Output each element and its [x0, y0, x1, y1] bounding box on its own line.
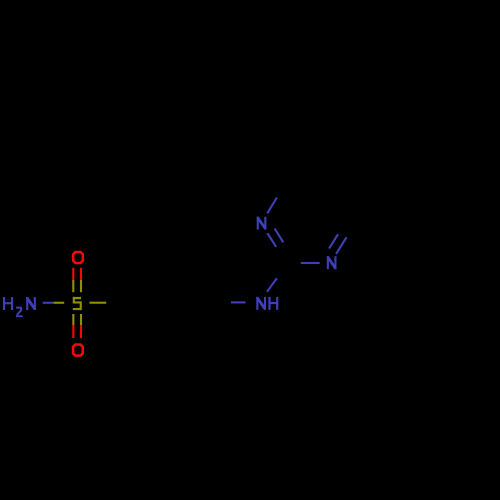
bond C2-N3 blue half [301, 262, 320, 264]
bond S=O bottom, line 2 [80, 314, 82, 338]
bond S=O top, line 2 [80, 268, 82, 292]
atom label N3 (pyrimidine) [327, 256, 337, 269]
bond S=O top, line 1 [72, 268, 74, 292]
atom label S (sulfonyl sulfur) [73, 297, 82, 310]
bond N-S (amine half, blue) [43, 302, 54, 304]
bond C(para)-NH blue half (carbon half invisible) [231, 301, 246, 303]
atom label N (of H2N) [26, 297, 36, 310]
bond N1-C6 blue half [267, 198, 277, 214]
bond NH-C2 blue half [267, 278, 277, 292]
atom label N (anilino NH nitrogen) [256, 297, 266, 310]
bond N3=C4 inner line blue half [329, 234, 338, 248]
bond N-S (sulfur half, olive) [54, 302, 65, 304]
atom label O (top oxygen) [72, 251, 84, 265]
bond S=O bottom, line 1 [72, 314, 74, 338]
atom label O (bottom oxygen) [72, 343, 84, 357]
atom label H (anilino NH hydrogen) [268, 297, 278, 310]
bond S-C(ipso) olive half (carbon half invisible) [90, 302, 107, 304]
bond N1=C2 inner line blue half [275, 229, 284, 243]
atom label N1 (pyrimidine) [257, 217, 267, 230]
atom label H (of H2N) [3, 297, 13, 310]
atom label subscript 2 (of H2N) [16, 307, 23, 317]
bond N1=C2 main line blue half [267, 233, 276, 247]
bond N3=C4 main line blue half [336, 237, 346, 254]
